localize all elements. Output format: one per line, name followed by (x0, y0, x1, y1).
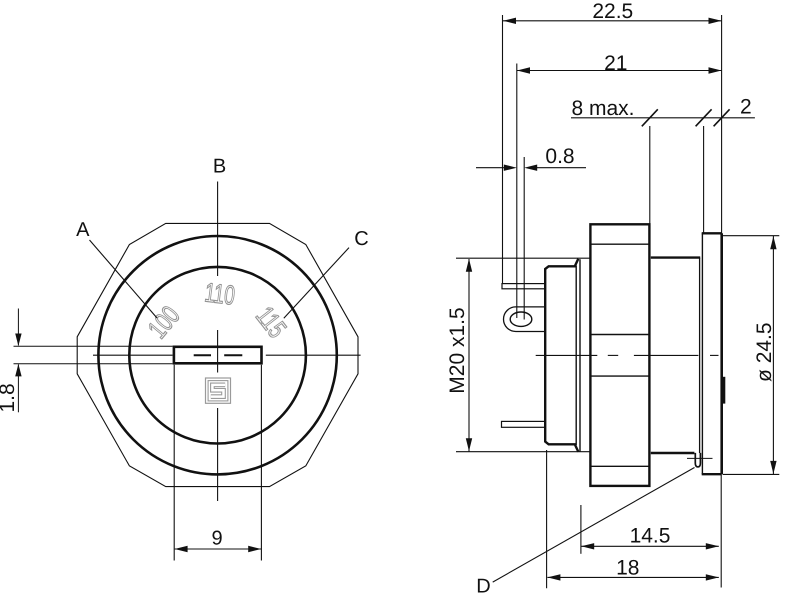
svg-text:21: 21 (604, 52, 627, 75)
svg-text:2: 2 (740, 96, 752, 119)
svg-text:110: 110 (203, 277, 237, 310)
svg-text:A: A (76, 219, 90, 241)
svg-text:9: 9 (211, 528, 222, 550)
svg-text:1.8: 1.8 (0, 383, 19, 412)
svg-text:14.5: 14.5 (630, 525, 671, 548)
svg-text:B: B (213, 156, 226, 178)
svg-text:22.5: 22.5 (592, 0, 633, 23)
svg-text:0.8: 0.8 (545, 145, 574, 168)
svg-text:D: D (476, 576, 490, 598)
svg-text:8 max.: 8 max. (571, 97, 634, 120)
svg-text:C: C (354, 228, 368, 250)
svg-text:18: 18 (616, 556, 639, 579)
svg-text:M20 x1.5: M20 x1.5 (446, 307, 469, 393)
svg-text:ø 24.5: ø 24.5 (753, 322, 776, 382)
